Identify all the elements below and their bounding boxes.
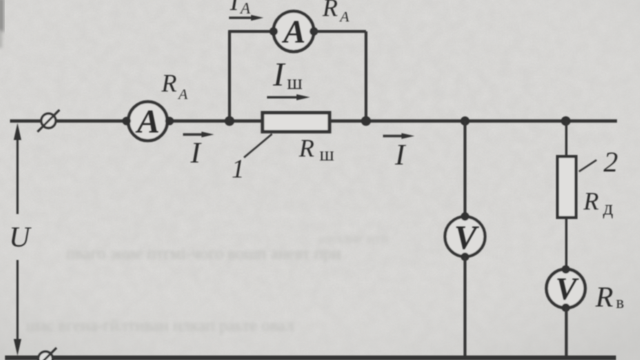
svg-text:R: R (161, 71, 177, 98)
label R_d (583, 189, 614, 220)
voltmeter V1 (445, 212, 485, 261)
bleed-through text band bottom (26, 316, 294, 335)
wire between resistor and voltmeter (565, 218, 567, 272)
svg-text:шас вгена-гйлтиван нлкап раьте: шас вгена-гйлтиван нлкап раьте овал (26, 316, 294, 335)
pointer line label 1 (244, 134, 272, 158)
wire branch up-left (228, 31, 231, 121)
arrow current I left (183, 132, 214, 138)
svg-text:шпхлнг нтп: шпхлнг нтп (318, 232, 389, 247)
label R_A left (161, 71, 189, 104)
svg-text:A: A (240, 1, 251, 18)
arrow current I_sh (267, 94, 310, 100)
label I_sh (272, 57, 303, 95)
resistor 2 R_d additional (558, 157, 577, 218)
svg-text:д: д (603, 198, 613, 220)
ammeter A2 (269, 11, 318, 51)
label R_sh (298, 136, 335, 166)
label I_A top (229, 0, 251, 18)
svg-text:R: R (595, 282, 614, 314)
svg-text:2: 2 (604, 147, 619, 179)
svg-text:R: R (322, 0, 338, 22)
svg-text:A: A (178, 87, 189, 103)
svg-text:1: 1 (232, 155, 245, 184)
wire right branch upper (565, 121, 567, 157)
svg-text:U: U (9, 222, 32, 254)
svg-text:I: I (229, 0, 240, 16)
svg-text:ш: ш (320, 145, 335, 166)
terminal input top (38, 110, 60, 132)
svg-text:A: A (135, 104, 160, 141)
svg-text:пваго эние птгмі-чого вошп: пваго эние птгмі-чого вошп аневт при (66, 244, 341, 263)
svg-text:V: V (454, 220, 479, 257)
bleed-through text band middle (66, 232, 389, 263)
wire voltmeter branch upper (464, 121, 467, 217)
node junction left of shunt (225, 116, 235, 126)
pointer line label 2 (579, 160, 597, 172)
scan edge top-left (0, 0, 4, 48)
node junction voltmeter branch (460, 116, 469, 125)
wire branch down-right (365, 31, 368, 121)
node U voltage dimension line (14, 123, 22, 356)
wire main top rail (10, 119, 617, 122)
wire top branch right segment (313, 30, 366, 33)
wire bottom rail (5, 355, 616, 360)
voltmeter V2 (546, 265, 585, 312)
svg-text:I: I (272, 57, 286, 94)
arrow current I right (383, 133, 415, 139)
svg-text:A: A (281, 15, 305, 51)
arrow current I_A (229, 15, 264, 21)
svg-text:R: R (298, 136, 314, 163)
svg-text:в: в (616, 293, 624, 312)
wire top branch left segment (228, 30, 273, 33)
resistor R_sh shunt (263, 113, 330, 132)
svg-text:R: R (583, 189, 599, 216)
node junction right branch (561, 116, 571, 126)
terminal input bottom (35, 348, 57, 360)
label R_A top (322, 0, 351, 26)
label R_v (595, 282, 625, 314)
svg-text:V: V (555, 271, 579, 307)
node junction right of shunt (361, 116, 371, 126)
wire voltmeter branch lower (464, 257, 467, 356)
svg-text:ш: ш (287, 72, 303, 94)
svg-text:A: A (339, 10, 350, 26)
ammeter A1 (122, 102, 174, 141)
wire V2 to bottom rail (565, 307, 568, 357)
